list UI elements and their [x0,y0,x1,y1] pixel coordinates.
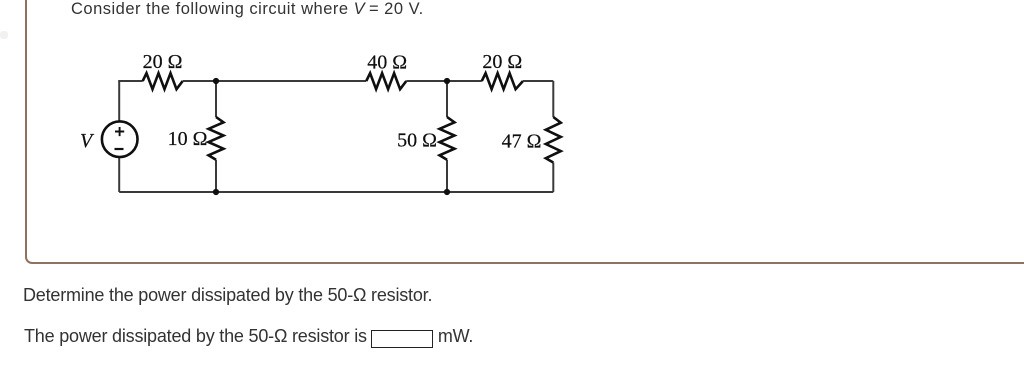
svg-text:47 Ω: 47 Ω [502,130,542,152]
wire bottom rail [119,191,553,193]
faint smudge top-left [0,31,8,39]
voltage source plus terminal [115,127,124,136]
svg-text:V: V [80,130,95,152]
wire node2 branch vertical [446,81,448,192]
wire top rail segment 2 [183,80,367,82]
wire node1 branch vertical [215,81,217,192]
wire right rail [552,81,554,192]
voltage source V1 circle [102,121,138,157]
svg-text:40 Ω: 40 Ω [367,51,407,73]
node B junction dot top right [444,78,450,84]
title text [71,1,424,18]
question line 2 with answer box [24,327,473,348]
wire top rail segment 1 [118,80,143,82]
svg-text:20 Ω: 20 Ω [143,51,183,73]
wire top rail segment 3 [406,80,482,82]
node A junction dot top left [213,78,219,84]
node C junction dot bottom left [213,189,219,195]
svg-text:10 Ω: 10 Ω [168,128,208,150]
resistor R5 zigzag 50 ohm vertical [440,117,455,160]
wire top rail segment 4 [523,80,553,82]
panel border [25,0,1024,264]
resistor R4 zigzag 10 ohm vertical [209,117,224,160]
resistor R6 zigzag 47 ohm vertical [546,117,561,163]
node D junction dot bottom right [444,189,450,195]
voltage source minus terminal [115,148,124,150]
svg-text:50 Ω: 50 Ω [397,130,437,152]
resistor R1 zigzag 20 ohm [143,73,183,89]
svg-text:20 Ω: 20 Ω [482,51,522,73]
wire left rail [118,81,120,192]
resistor R2 zigzag 40 ohm [366,73,406,89]
question line 1 [23,286,432,304]
resistor R3 zigzag 20 ohm right [482,73,523,89]
